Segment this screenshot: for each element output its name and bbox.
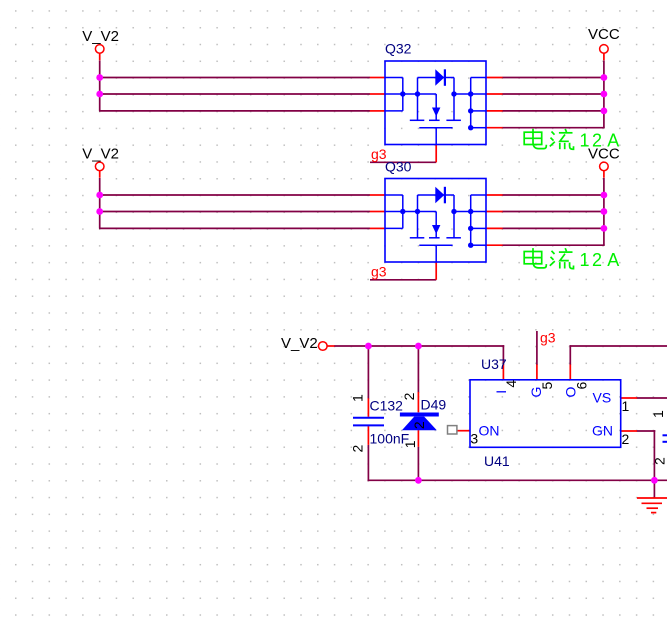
svg-text:ON: ON [479, 423, 500, 439]
svg-text:Q30: Q30 [385, 158, 412, 174]
svg-text:2: 2 [652, 457, 667, 465]
wires maroon [334, 331, 667, 498]
svg-text:1: 1 [350, 394, 366, 402]
wire g3 into pin5 [536, 331, 538, 365]
svg-text:g3: g3 [540, 330, 556, 346]
svg-text:g3: g3 [371, 264, 387, 280]
svg-text:2: 2 [350, 445, 366, 453]
svg-text:2: 2 [411, 421, 427, 429]
pin stubs red [327, 346, 637, 447]
no-connect square on pin 3 [448, 426, 457, 434]
capacitor C132 plates [353, 418, 384, 426]
svg-text:2: 2 [401, 392, 417, 400]
green label 电流12A (1) [524, 129, 619, 151]
junction dots lower [365, 343, 658, 484]
svg-text:5: 5 [539, 382, 555, 390]
wire C132 bottom [367, 445, 369, 481]
transistor Q30 (MOSFET block with V_V2/VCC wiring) [95, 162, 608, 280]
svg-text:4: 4 [503, 380, 519, 388]
svg-text:V_V2: V_V2 [82, 28, 119, 45]
svg-text:Q32: Q32 [385, 41, 412, 57]
svg-text:1: 1 [402, 440, 418, 448]
svg-text:U37: U37 [481, 356, 507, 372]
svg-text:V_V2: V_V2 [281, 335, 318, 352]
svg-text:1: 1 [622, 398, 630, 414]
wire corner into pin4 [502, 345, 504, 365]
svg-text:6: 6 [574, 382, 590, 390]
transistor Q32 (MOSFET block with V_V2/VCC wiring) [95, 45, 608, 163]
wire bottom rail [368, 479, 667, 481]
wire D49 bottom [417, 447, 419, 481]
svg-text:2: 2 [622, 431, 630, 447]
wire ground drop [653, 480, 655, 498]
svg-text:VS: VS [593, 390, 612, 406]
wire C132 top [367, 346, 369, 399]
terminal V_V2 (3) [319, 342, 328, 351]
capacitor at right edge (partially visible) [663, 435, 667, 442]
svg-text:C132: C132 [370, 398, 404, 414]
svg-text:3: 3 [470, 431, 478, 447]
svg-text:VCC: VCC [588, 146, 620, 163]
svg-text:U41: U41 [484, 453, 510, 469]
svg-text:GN: GN [592, 423, 613, 439]
wire top rail V_V2 [334, 345, 504, 347]
wire pin6 up and right [569, 345, 571, 365]
svg-text:D49: D49 [421, 397, 447, 413]
IC U41 body [470, 380, 621, 448]
green label 电流12A (2) [524, 248, 619, 270]
ground [637, 498, 667, 513]
svg-text:I: I [493, 390, 509, 394]
svg-text:V_V2: V_V2 [82, 146, 119, 163]
wire D49 top [417, 346, 419, 393]
diode D49 [400, 413, 439, 417]
svg-text:VCC: VCC [588, 26, 620, 43]
svg-text:1: 1 [650, 410, 666, 418]
wire VS right [637, 397, 667, 399]
wire GN to ground [637, 430, 656, 432]
